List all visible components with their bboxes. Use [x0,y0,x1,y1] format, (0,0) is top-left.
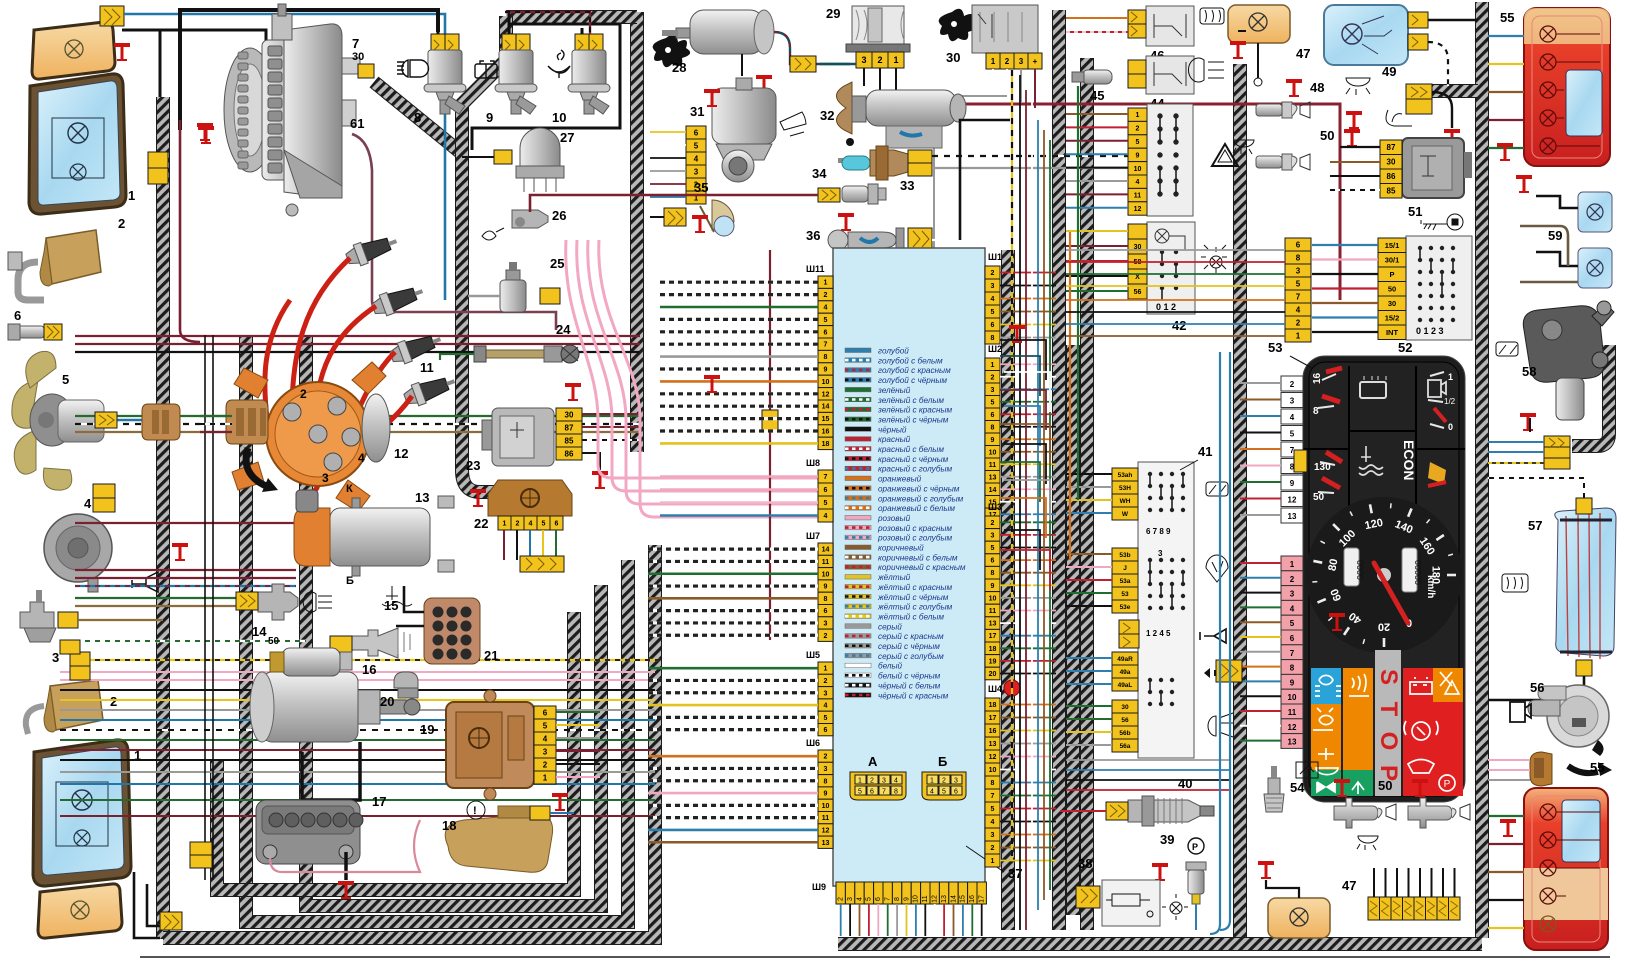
svg-text:48: 48 [1310,80,1324,95]
ground battery [338,881,354,899]
svg-text:20: 20 [380,694,394,709]
sensor 26 [512,210,548,228]
connector dist harness [142,404,180,440]
svg-text:56b: 56b [1119,730,1130,737]
svg-text:6: 6 [824,329,828,336]
svg-text:3: 3 [954,778,958,785]
ground 28 [756,75,772,93]
svg-text:А: А [868,754,878,769]
connector 18 [530,806,550,820]
svg-text:26: 26 [552,208,566,223]
svg-text:3: 3 [861,55,866,65]
sensor 54 [1264,766,1284,812]
wire loom cluster spine [1233,64,1247,938]
svg-text:ECON: ECON [1401,440,1417,480]
svg-text:красный с чёрным: красный с чёрным [878,455,949,464]
svg-text:50: 50 [1313,492,1325,503]
svg-text:9: 9 [824,367,828,374]
connector inline 6 [44,324,62,340]
connector 40 [1106,802,1128,820]
svg-text:45: 45 [1090,88,1104,103]
wire loom alternator feed [374,82,460,152]
svg-text:3: 3 [543,747,548,756]
connector inline c1 [1216,660,1242,682]
svg-text:4: 4 [543,734,548,743]
svg-text:4: 4 [1290,413,1295,422]
ground g2 [1009,325,1025,343]
svg-text:53ah: 53ah [1118,472,1133,479]
svg-text:4: 4 [84,496,92,511]
wire 46 feed [1066,17,1128,19]
svg-text:Ш11: Ш11 [806,264,825,274]
svg-text:4: 4 [529,521,533,528]
wire 55 bottom leads [1488,816,1524,928]
icon heated window 46 [1200,8,1224,24]
wire loom top center vertical [630,12,644,452]
svg-text:7: 7 [824,342,828,349]
svg-text:49a: 49a [1120,669,1131,676]
side lamp 59b [1578,248,1612,288]
svg-text:9: 9 [991,583,995,590]
switch 8 [397,34,466,114]
svg-text:12: 12 [1134,206,1142,213]
svg-text:1: 1 [503,521,507,528]
icon lamp 38 [1162,894,1188,920]
connector 29 pins [856,52,872,68]
svg-text:14: 14 [989,487,997,494]
wire 57 [1488,676,1584,700]
svg-text:87: 87 [1387,143,1396,152]
svg-text:6: 6 [991,558,995,565]
connector inline l2 [60,640,80,654]
svg-text:17: 17 [989,633,997,640]
wire 27 [462,156,494,158]
wire sensor15 [75,640,306,642]
connector 56 [1530,752,1552,786]
connector 27 [494,150,512,164]
svg-text:18: 18 [442,818,456,833]
svg-text:8: 8 [991,335,995,342]
connector 49 [1406,84,1432,99]
svg-text:50: 50 [1320,128,1334,143]
svg-text:2: 2 [1005,57,1010,66]
connector alt 30 [358,64,374,78]
svg-text:6: 6 [694,128,699,137]
wire 56 leads [1488,760,1530,770]
svg-text:23: 23 [466,458,480,473]
motor 28 [662,10,774,54]
connector 25 [540,288,560,304]
svg-text:зелёный с чёрным: зелёный с чёрным [877,415,949,424]
icon key 52 [1421,214,1463,230]
svg-text:1: 1 [1136,112,1140,119]
svg-text:2: 2 [300,387,307,401]
wire loom center-right spine [1052,10,1066,930]
svg-text:3: 3 [847,897,854,901]
svg-text:7: 7 [885,897,892,901]
wire loom right of center [1001,250,1015,930]
wire channel left [205,335,213,880]
relay 51 [1402,138,1472,198]
connector 44 [1128,60,1146,74]
svg-text:19: 19 [420,722,434,737]
svg-text:2: 2 [1290,380,1295,389]
wire 47 drop [1238,31,1258,78]
ground 22 [470,489,486,507]
wire loom bottom loop 3 [306,337,601,906]
wire loom bottom loop outer [163,545,655,938]
svg-text:30: 30 [1388,299,1396,308]
svg-text:серый: серый [878,622,902,631]
svg-text:4: 4 [824,305,828,312]
wire cluster leads [1240,383,1281,741]
switch 9 [475,34,537,114]
relay block 42 [1147,222,1195,314]
svg-text:2: 2 [991,270,995,277]
svg-text:К: К [346,483,353,495]
svg-text:зелёный с красным: зелёный с красным [877,406,952,415]
lamp socket 50b [1256,154,1310,170]
svg-text:W: W [1122,511,1129,518]
svg-text:чёрный с белым: чёрный с белым [878,681,941,690]
svg-text:11: 11 [822,559,830,566]
svg-text:красный с белым: красный с белым [878,445,944,454]
wiper motor 31 [712,78,776,182]
svg-text:зелёный: зелёный [877,386,911,395]
svg-text:86: 86 [1387,172,1396,181]
wire 58 leads [1488,442,1544,452]
svg-text:6: 6 [824,487,828,494]
svg-text:!: ! [473,805,477,817]
svg-text:5: 5 [694,141,699,150]
svg-text:9: 9 [824,584,828,591]
svg-text:8: 8 [991,570,995,577]
wire coil feed 2 [75,570,296,578]
svg-text:Б: Б [346,575,354,587]
svg-text:2: 2 [543,760,548,769]
wire 35 [650,216,664,218]
connector 41 group1 [1112,468,1138,481]
sensor 27 [516,128,564,192]
svg-text:13: 13 [989,621,997,628]
svg-text:13: 13 [415,490,429,505]
svg-text:3: 3 [1158,549,1163,558]
svg-text:4: 4 [694,154,699,163]
svg-text:2: 2 [824,633,828,640]
wire alt maroon2 [180,120,200,342]
svg-text:3: 3 [824,766,828,773]
svg-text:10: 10 [822,571,830,578]
wire 22 drops [504,530,556,560]
wire 51 leads [1340,146,1380,148]
wire engine box [180,10,438,130]
svg-text:6: 6 [875,897,882,901]
wire loom coil branch [462,16,556,492]
icon lamp 42 [1201,245,1227,273]
svg-text:3: 3 [322,471,329,485]
svg-text:WH: WH [1120,498,1131,505]
svg-text:6: 6 [991,412,995,419]
wire coil feed 3 [75,585,296,587]
svg-text:4: 4 [358,451,365,465]
wire Ш9 drops [841,904,982,936]
warning lamp block [1311,650,1463,796]
icon 54 [1296,762,1318,778]
wire panel left leads [648,282,818,842]
fan icon 30 [939,9,977,41]
ignition switch 52 [1406,236,1472,340]
svg-text:1: 1 [824,280,828,287]
ground 47 [1230,41,1246,59]
svg-text:чёрный с красным: чёрный с красным [878,691,949,700]
relay 22 [488,480,572,516]
svg-text:6: 6 [824,608,828,615]
svg-text:4: 4 [894,778,898,785]
wire loom bottom loop 4 [217,612,574,890]
svg-text:5: 5 [991,309,995,316]
svg-text:27: 27 [560,130,574,145]
icon rays 50 [1233,140,1254,154]
svg-text:2: 2 [1290,575,1295,584]
svg-text:9: 9 [1290,479,1295,488]
svg-text:30/1: 30/1 [1385,255,1400,264]
svg-text:0 1 2 3: 0 1 2 3 [1416,326,1444,336]
sensor 25 [500,262,526,312]
svg-text:20: 20 [989,671,997,678]
icon foglamp 44 [1188,58,1224,82]
ground 23 [592,471,608,489]
item 20 [394,672,418,698]
svg-text:P: P [1192,842,1198,852]
svg-text:6: 6 [1296,240,1301,249]
svg-text:39: 39 [1160,832,1174,847]
svg-text:19: 19 [989,658,997,665]
svg-text:4: 4 [824,513,828,520]
svg-text:7: 7 [991,793,995,800]
wire starter black [302,742,360,800]
svg-text:47: 47 [1342,878,1356,893]
svg-text:10: 10 [822,379,830,386]
wire HT 4 [344,396,412,452]
connector 22 inline [520,556,564,572]
svg-text:Ш6: Ш6 [806,738,820,748]
svg-text:10: 10 [989,767,997,774]
svg-text:4: 4 [991,819,995,826]
wire 55 top leads [1488,36,1524,148]
sensor 45 [1072,70,1112,84]
icon temp15 [382,586,412,606]
ground 19 [552,793,568,811]
svg-text:жёлтый с красным: жёлтый с красным [877,583,952,592]
svg-text:3: 3 [1290,397,1295,406]
svg-text:30: 30 [1121,704,1129,711]
wire 30 drops [993,69,1035,108]
svg-text:5: 5 [1290,619,1295,628]
side lamp 59a [1578,192,1612,232]
wire bl corner [134,872,163,938]
svg-text:10: 10 [822,803,830,810]
svg-text:35: 35 [694,180,708,195]
svg-text:голубой с белым: голубой с белым [878,356,943,365]
svg-text:5: 5 [1296,279,1301,288]
svg-text:6: 6 [991,322,995,329]
ground center [692,215,708,233]
svg-text:8: 8 [824,354,828,361]
svg-text:53b: 53b [1119,552,1130,559]
headlamp unit 1 (bottom) [33,740,131,886]
spark plug 11d [402,371,458,409]
svg-text:50: 50 [268,636,280,647]
connector top left [100,6,124,26]
connector 29 inline [790,56,816,72]
icon oil [482,228,504,240]
svg-text:1: 1 [991,57,996,66]
svg-text:5: 5 [824,500,828,507]
svg-text:00000: 00000 [1413,560,1423,585]
svg-text:31: 31 [690,104,704,119]
wire 29 red [896,92,1340,300]
svg-text:12: 12 [822,827,830,834]
sensor 14 [258,584,298,620]
svg-text:53a: 53a [1120,578,1131,585]
icon beam 41 [1208,713,1233,737]
svg-text:15: 15 [822,416,830,423]
svg-text:16: 16 [362,662,376,677]
ground horn [172,543,188,561]
svg-text:8: 8 [824,596,828,603]
svg-text:9: 9 [1136,152,1140,159]
wire 29 out [864,68,896,100]
ground 50c [1334,779,1350,797]
wire alt 61 [352,134,556,330]
svg-text:42: 42 [1172,318,1186,333]
svg-text:15/1: 15/1 [1385,241,1400,250]
svg-text:86: 86 [565,449,574,458]
wire 19 out [556,712,600,777]
wire battery pink [270,820,420,872]
svg-text:14: 14 [822,547,830,554]
wire panel right leads [1000,273,1056,861]
svg-text:16: 16 [822,429,830,436]
wire battery pos [344,852,348,880]
svg-text:4: 4 [824,703,828,710]
svg-text:2: 2 [838,897,845,901]
svg-text:50: 50 [1388,284,1396,293]
wire loom bottom right bus [838,937,1482,951]
svg-text:50: 50 [1378,778,1392,793]
connector 52 pins [1378,238,1406,253]
connector 2 bottom [190,842,212,855]
svg-text:2: 2 [824,754,828,761]
svg-text:2: 2 [110,694,117,709]
svg-text:коричневый с белым: коричневый с белым [878,553,958,562]
svg-text:7: 7 [824,474,828,481]
resistor 29 [846,6,910,52]
wire fan blue [104,420,150,428]
ground 49 [1444,129,1460,147]
svg-text:16: 16 [989,728,997,735]
svg-text:2: 2 [1296,318,1301,327]
connector block 21 [424,598,480,664]
svg-text:7: 7 [1296,292,1301,301]
svg-text:1: 1 [824,666,828,673]
ground topleft [114,43,130,61]
svg-text:9: 9 [991,437,995,444]
svg-text:8: 8 [1296,253,1301,262]
icon seat 49 [1386,110,1412,126]
connector 34 [818,188,840,202]
connector 33 [908,150,932,163]
svg-text:голубой: голубой [878,347,909,356]
svg-text:130: 130 [1314,462,1331,473]
svg-text:жёлтый с чёрным: жёлтый с чёрным [877,593,949,602]
svg-text:61: 61 [350,116,364,131]
main harness panel 37 [833,248,985,886]
svg-text:оранжевый с чёрным: оранжевый с чёрным [878,484,960,493]
wire 18 [550,812,574,814]
svg-text:8: 8 [991,424,995,431]
arrow distributor [246,448,266,486]
svg-text:11: 11 [420,360,434,375]
connector 23 pins [556,408,582,421]
svg-text:белый: белый [878,662,903,671]
svg-text:17: 17 [979,895,986,903]
svg-text:5: 5 [991,545,995,552]
svg-text:6: 6 [543,708,548,717]
svg-text:10: 10 [552,110,566,125]
cable 24 [474,345,579,363]
courtesy lamp 47 bottom [1268,898,1330,938]
wire right bus upper [1066,250,1285,336]
svg-text:розовый: розовый [877,514,911,523]
icon wiper31 [780,112,806,136]
svg-text:зелёный с белым: зелёный с белым [877,396,944,405]
icon triangle 43 [1212,144,1238,166]
svg-text:3: 3 [991,387,995,394]
svg-text:25: 25 [550,256,564,271]
tail lamp 55 bottom [1524,788,1608,950]
svg-text:41: 41 [1198,444,1212,459]
svg-text:56: 56 [1530,680,1544,695]
svg-text:Ш5: Ш5 [806,650,820,660]
svg-text:1: 1 [1448,372,1453,382]
svg-text:1: 1 [128,188,135,203]
svg-text:49aL: 49aL [1118,682,1133,689]
svg-text:15/2: 15/2 [1385,313,1400,322]
svg-text:O: O [1375,732,1402,751]
svg-text:7: 7 [882,789,886,796]
svg-text:52: 52 [1398,340,1412,355]
svg-text:13: 13 [989,741,997,748]
svg-text:4: 4 [1290,604,1295,613]
wire 49 out [1432,92,1452,128]
svg-text:4: 4 [991,296,995,303]
connector 57 bottom [1576,660,1592,676]
svg-text:33: 33 [900,178,914,193]
wire bundle left A [75,336,640,432]
svg-text:0 1 2: 0 1 2 [1156,302,1176,312]
icon arrows 41 [1204,668,1236,678]
svg-text:2: 2 [516,521,520,528]
wire green vertical [1077,86,1079,500]
connector 51 pins [1380,140,1402,155]
svg-text:3: 3 [824,690,828,697]
icon warn18 [467,801,485,819]
svg-text:P: P [1444,779,1451,790]
svg-text:53: 53 [1121,591,1129,598]
svg-text:11: 11 [922,895,929,902]
ground 39 [1152,863,1168,881]
